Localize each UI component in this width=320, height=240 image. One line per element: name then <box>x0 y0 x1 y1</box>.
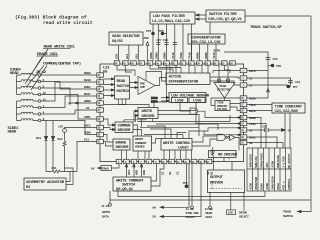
svg-text:TRACK: TRACK <box>283 209 291 213</box>
write current source bottom stubs <box>138 151 149 159</box>
wire C1 second with TP7 <box>247 85 291 87</box>
arrows into read switch matrix <box>103 79 114 96</box>
svg-text:COM1: COM1 <box>84 115 91 119</box>
wire C1 to C24 <box>247 78 291 87</box>
svg-text:DIF0: DIF0 <box>214 49 221 53</box>
svg-text:L4,L5,RA11,C18,C20: L4,L5,RA11,C18,C20 <box>152 20 191 24</box>
svg-text:DATA: DATA <box>102 215 109 219</box>
svg-text:SWR/HIGH: SWR/HIGH <box>270 176 274 189</box>
and gate U-C <box>190 108 198 114</box>
extra mesh wires <box>138 115 231 135</box>
svg-text:LVS0: LVS0 <box>175 100 184 104</box>
rotated labels under bottom pins <box>127 170 214 175</box>
wire RDC0 to time constant <box>247 110 272 112</box>
wire W0N0 <box>41 88 97 103</box>
svg-text:LOGIC: LOGIC <box>178 147 189 151</box>
svg-text:LV0: LV0 <box>228 211 233 215</box>
coil L row5 <box>21 99 38 101</box>
svg-text:JR:12: JR:12 <box>36 71 47 75</box>
label leader diagonals <box>25 49 48 90</box>
svg-text:C25: C25 <box>273 57 278 61</box>
svg-text:C21,C22,R40: C21,C22,R40 <box>275 110 299 114</box>
svg-text:C0: C0 <box>249 128 253 132</box>
svg-text:HIGH: HIGH <box>276 183 280 190</box>
lvs bottom to and gate <box>180 103 190 112</box>
svg-text:HIGH: HIGH <box>270 161 274 168</box>
svg-text:GC0: GC0 <box>115 54 119 59</box>
svg-text:LOW VOLTAGE SENSOR: LOW VOLTAGE SENSOR <box>171 95 210 99</box>
svg-text:WRITE: WRITE <box>102 210 110 214</box>
low voltage sensor box <box>169 93 206 103</box>
time constant box drop <box>285 113 290 148</box>
wire W1 <box>41 110 97 114</box>
svg-text:AMP: AMP <box>140 85 145 89</box>
svg-text:E0: E0 <box>153 215 157 219</box>
svg-text:EVCC: EVCC <box>84 124 91 128</box>
svg-text:REM0: REM0 <box>196 52 200 59</box>
write driver links <box>134 111 138 122</box>
LSI bottom pin row <box>116 159 122 163</box>
time domain filter right links <box>230 104 240 111</box>
node arrow on C25 line <box>267 89 270 92</box>
track switch line <box>245 16 311 212</box>
svg-text:OPEN/SWR: OPEN/SWR <box>254 177 258 190</box>
matrix bottom stubs <box>118 99 126 105</box>
read switch matrix box <box>115 76 130 99</box>
wire RW00 <box>41 74 97 76</box>
read data connector J1-30 <box>209 206 212 209</box>
svg-text:TP7: TP7 <box>293 85 298 89</box>
svg-text:RW10: RW10 <box>84 78 91 82</box>
capacitor C24 <box>288 81 293 83</box>
svg-text:C24: C24 <box>295 80 300 84</box>
coil L row7 <box>21 112 38 114</box>
side0 head coil bus <box>17 75 22 95</box>
svg-text:GA/55: GA/55 <box>112 39 123 44</box>
svg-text:SWR/LOW: SWR/LOW <box>254 156 258 168</box>
svg-text:DRIVER: DRIVER <box>142 115 156 119</box>
svg-text:(Fig.303) Block diagram of: (Fig.303) Block diagram of <box>15 15 87 21</box>
output driver box <box>208 170 245 193</box>
test point TP8 <box>268 65 272 67</box>
svg-text:ASM: ASM <box>144 36 149 40</box>
output driver dashed inner <box>210 182 242 191</box>
svg-text:W0: W0 <box>153 206 157 210</box>
transistor in rd driver <box>210 151 215 157</box>
svg-text:WRITE: WRITE <box>142 110 153 114</box>
svg-text:DIF0: DIF0 <box>249 69 256 73</box>
erase driver bottom stub <box>122 150 127 159</box>
svg-text:TM10: TM10 <box>179 52 183 59</box>
buffer gate U-B <box>228 137 230 139</box>
svg-text:D13: D13 <box>36 136 41 140</box>
svg-text:MATRIX: MATRIX <box>117 90 131 94</box>
E0 line <box>161 164 201 217</box>
svg-text:SOURCE: SOURCE <box>135 145 145 149</box>
svg-text:RW01: RW01 <box>84 85 91 89</box>
wire RW01 <box>41 82 97 90</box>
erase driver box <box>113 139 130 150</box>
diode D13a symbol <box>44 137 47 141</box>
svg-text:WRITE CONTROL: WRITE CONTROL <box>163 142 191 146</box>
svg-text:C27 C30: C27 C30 <box>157 38 169 42</box>
preamp feedback line to top pins <box>150 65 181 73</box>
diode D13b symbol <box>51 137 54 141</box>
svg-text:DGND: DGND <box>249 116 256 120</box>
svg-text:DIFFERENTIATOR: DIFFERENTIATOR <box>169 81 199 85</box>
svg-text:J-1 PCB: J-1 PCB <box>281 156 285 168</box>
svg-text:TP2: TP2 <box>183 181 188 185</box>
svg-text:DVS0: DVS0 <box>249 96 256 100</box>
svg-text:SWITCH: SWITCH <box>283 214 293 218</box>
svg-text:GS1: GS1 <box>134 54 138 59</box>
svg-text:C23: C23 <box>262 125 267 129</box>
svg-text:R4M0: R4M0 <box>204 52 208 59</box>
svg-text:ERA0: ERA0 <box>102 167 109 171</box>
svg-text:W1: W1 <box>86 106 90 110</box>
output driver top stubs <box>214 158 233 171</box>
switch filter box <box>206 10 245 22</box>
svg-text:DETECTOR: DETECTOR <box>217 87 230 91</box>
svg-text:READ WRITE COIL: READ WRITE COIL <box>44 46 76 50</box>
svg-text:DRIVER: DRIVER <box>210 182 224 186</box>
active differentiator to right pins <box>210 71 240 86</box>
coil L row4 <box>21 93 38 95</box>
wire COM0 <box>41 121 97 135</box>
lvs0 wire to gate area <box>196 103 240 124</box>
wire D1R1 down to table <box>247 137 277 148</box>
svg-text:W0N0: W0N0 <box>84 99 91 103</box>
svg-text:SWR/HIGH: SWR/HIGH <box>276 155 280 168</box>
write current source right link <box>152 139 162 144</box>
matrix to preamp arrows <box>130 83 138 88</box>
svg-text:12V: 12V <box>58 125 63 129</box>
wire TDC0 to time constant <box>247 104 272 106</box>
asymmetry adjustor box <box>24 178 66 190</box>
low pass filter drop wires <box>153 24 191 61</box>
12V rail with resistor R12 <box>63 132 66 171</box>
svg-text:C1: C1 <box>249 76 253 80</box>
active differentiator box <box>166 73 210 85</box>
svg-text:S0: S0 <box>249 141 253 145</box>
DIF0 wire to C25 node <box>224 52 268 98</box>
side1 head coil bus <box>17 101 22 121</box>
svg-text:DRIVER: DRIVER <box>118 129 132 133</box>
svg-text:TF10: TF10 <box>171 52 175 59</box>
svg-text:SWITCH FILTER: SWITCH FILTER <box>209 13 237 17</box>
wire DVS0 <box>247 97 268 99</box>
svg-text:C1: C1 <box>176 171 180 175</box>
svg-text:E21: E21 <box>84 138 89 142</box>
svg-text:R12: R12 <box>58 137 63 141</box>
capacitor C25 <box>266 58 271 60</box>
connector pin circles JR <box>38 74 41 77</box>
svg-text:ERASE COIL: ERASE COIL <box>37 53 59 57</box>
svg-text:ACTIVE: ACTIVE <box>169 76 183 80</box>
side one select connector J1-32 <box>191 206 194 209</box>
op-amp PRE AMP triangle <box>138 77 155 95</box>
erase driver input links <box>103 135 113 147</box>
mesh lines upper right of logic <box>204 131 240 135</box>
rd driver inner links <box>213 147 230 159</box>
asymmetry box links <box>65 168 74 185</box>
active differentiator top stubs <box>170 65 208 73</box>
svg-text:WD0: WD0 <box>142 170 146 175</box>
svg-text:LVS0: LVS0 <box>249 122 256 126</box>
coil L row1 <box>21 73 38 75</box>
svg-text:OUTPUT: OUTPUT <box>210 176 224 180</box>
low pass filter box <box>150 12 195 24</box>
svg-text:LVS0: LVS0 <box>193 100 202 104</box>
svg-text:WS1: WS1 <box>127 170 131 175</box>
time domain filter box <box>215 101 230 111</box>
svg-text:TP4: TP4 <box>146 29 151 33</box>
write control logic bottom stubs <box>164 150 192 159</box>
svg-text:ERM0: ERM0 <box>163 52 167 59</box>
common driver to write driver link <box>124 119 146 123</box>
ASM arrow stub <box>147 46 149 61</box>
wire DGND down to table <box>247 118 261 149</box>
svg-text:TP10: TP10 <box>187 52 191 59</box>
W0 line <box>161 164 189 208</box>
svg-text:SELECT: SELECT <box>186 215 196 219</box>
write control logic top mesh <box>147 126 240 139</box>
wire from top pin to peak det area <box>224 65 230 73</box>
and gate U-A <box>217 134 225 140</box>
arrows between filter boxes <box>196 15 206 19</box>
LSI U5 box <box>100 64 244 162</box>
0V arrow with ERA0 box <box>98 167 100 169</box>
rd driver box <box>209 151 237 158</box>
svg-text:TDC0: TDC0 <box>249 103 256 107</box>
svg-text:ASMA: ASMA <box>149 52 153 59</box>
differentiator box <box>188 34 225 44</box>
wire S0 down to table <box>247 143 283 149</box>
svg-text:TRACK SWITCH,SF: TRACK SWITCH,SF <box>250 26 282 30</box>
top feed lines into matrix area <box>117 65 135 76</box>
write current source box <box>133 136 152 151</box>
svg-text:COMMON(CENTER TAP): COMMON(CENTER TAP) <box>43 62 81 67</box>
svg-text:GC1: GC1 <box>125 54 129 59</box>
svg-text:CONTROL: CONTROL <box>287 178 291 190</box>
gain selector box <box>109 32 143 45</box>
svg-text:HEAD: HEAD <box>8 131 17 135</box>
svg-text:RD DRIVER: RD DRIVER <box>218 154 238 158</box>
label underlines <box>37 48 71 56</box>
wire C0 with capacitor C23 <box>247 129 282 131</box>
rd driver link down <box>223 158 225 162</box>
svg-text:S1: S1 <box>168 171 172 175</box>
svg-text:R1: R1 <box>210 171 214 175</box>
svg-text:J1-22: J1-22 <box>101 204 109 208</box>
LSI right pin column <box>240 68 247 72</box>
svg-text:ASYMMETRY ADJUSTOR: ASYMMETRY ADJUSTOR <box>26 181 65 185</box>
svg-text:EVC0: EVC0 <box>151 99 158 103</box>
capacitor C18 <box>173 43 177 45</box>
write current switch box <box>113 177 151 191</box>
arrowheads at right pins inner side <box>237 116 240 135</box>
peak detector triangle <box>214 83 235 99</box>
svg-text:PCB +-: PCB +- <box>281 180 285 190</box>
5V arrow <box>282 129 286 132</box>
rotated pin net labels top row <box>115 52 217 59</box>
capacitor C27 <box>156 43 160 45</box>
wire COM1 <box>41 95 97 120</box>
gate output to rd driver <box>235 137 239 150</box>
switch filter to differentiator wire <box>209 22 211 34</box>
svg-text:T210: T210 <box>212 52 216 59</box>
wire RW10 <box>41 82 97 101</box>
svg-text:5V: 5V <box>288 129 292 133</box>
diode line D13b <box>52 121 54 172</box>
wire EVCC / 12V <box>65 128 97 129</box>
svg-text:COM0: COM0 <box>84 131 91 135</box>
signal table grid <box>247 148 291 191</box>
LV0 box link <box>227 210 236 215</box>
svg-text:PUSH: PUSH <box>259 183 263 190</box>
svg-text:ERMA: ERMA <box>154 52 158 59</box>
test point TP2 <box>186 164 188 185</box>
svg-text:SWITCH: SWITCH <box>117 85 131 89</box>
svg-text:C1: C1 <box>249 83 253 87</box>
svg-text:HEAD: HEAD <box>10 72 19 76</box>
svg-text:RW11: RW11 <box>84 92 91 96</box>
svg-text:R33,C32,L3,C36: R33,C32,L3,C36 <box>191 41 221 45</box>
resistor R11 + rail <box>46 170 77 173</box>
write driver input arrowheads <box>135 110 138 117</box>
coil L row2 <box>21 80 38 82</box>
gain selector wires <box>118 45 138 61</box>
wire RW11 <box>41 96 97 108</box>
test point TP4 <box>152 32 155 35</box>
svg-text:read write circuit: read write circuit <box>43 20 93 26</box>
bottom bus wire lower <box>112 199 311 201</box>
time constant box <box>272 103 305 113</box>
0V arrow <box>75 102 79 104</box>
svg-text:OPEN/PUSH: OPEN/PUSH <box>259 153 263 168</box>
differentiator drop wires <box>192 44 217 61</box>
svg-text:E1: E1 <box>161 171 165 175</box>
write driver top stubs <box>104 65 167 107</box>
svg-text:11: 11 <box>43 97 47 101</box>
svg-text:FILTER: FILTER <box>217 107 227 111</box>
svg-text:R11: R11 <box>52 166 57 170</box>
svg-text:LOW PASS FILTER: LOW PASS FILTER <box>153 15 185 19</box>
svg-text:GAIN SELECTOR: GAIN SELECTOR <box>112 35 140 39</box>
svg-text:D1R1: D1R1 <box>249 135 256 139</box>
svg-text:RD OUTPUT: RD OUTPUT <box>287 154 291 169</box>
write driver box <box>138 108 158 119</box>
svg-text:ADJ: ADJ <box>265 162 269 167</box>
write current switch bottom links <box>151 164 164 186</box>
svg-text:READ: READ <box>117 80 126 84</box>
low voltage sensor input labels arrows <box>161 98 169 102</box>
svg-text:TP6: TP6 <box>159 29 164 33</box>
wire LVS0 down to table <box>247 124 266 149</box>
capacitor C30 <box>164 43 168 45</box>
bottom bus wire upper <box>118 191 265 197</box>
coil L row8 <box>21 119 38 121</box>
svg-text:Q9,Q0,Q1: Q9,Q0,Q1 <box>116 188 134 192</box>
coil L row6 <box>21 106 38 108</box>
svg-text:ERASE: ERASE <box>116 142 127 146</box>
common driver box <box>115 122 133 133</box>
svg-text:TP8: TP8 <box>276 64 281 68</box>
preamp output wires <box>155 78 166 86</box>
svg-text:SELECT: SELECT <box>239 214 249 218</box>
svg-text:WS0: WS0 <box>134 170 138 175</box>
svg-text:0V: 0V <box>68 101 72 105</box>
write control logic right links to gates <box>192 136 217 146</box>
svg-text:HIGH: HIGH <box>265 183 269 190</box>
peak detector to time domain filter <box>224 98 226 101</box>
svg-text:0V: 0V <box>91 167 95 171</box>
svg-text:DRIVER: DRIVER <box>116 146 130 150</box>
common driver right links <box>133 125 142 136</box>
wire DIF0 pin <box>247 70 268 72</box>
peak detector top stubs <box>219 65 228 82</box>
test point TP6 <box>161 32 164 35</box>
wire E21 <box>77 142 97 172</box>
svg-text:COMMON: COMMON <box>118 125 132 129</box>
write data connector J1-22 <box>109 203 112 206</box>
svg-text:HIGH: HIGH <box>248 183 252 190</box>
LSI left pin column <box>97 73 104 77</box>
svg-text:RW00: RW00 <box>84 71 91 75</box>
svg-text:RDC0: RDC0 <box>249 109 256 113</box>
svg-text:SWR/HIGH: SWR/HIGH <box>248 154 252 167</box>
coil L row3 <box>21 86 38 88</box>
diode line D13a <box>45 121 47 172</box>
and gate U-C output <box>198 111 241 117</box>
drive select link <box>243 192 245 211</box>
common driver input arrows <box>103 119 115 130</box>
svg-text:10: 10 <box>43 91 47 95</box>
svg-text:DATA: DATA <box>206 215 213 219</box>
LSI top pin row <box>114 61 120 65</box>
svg-text:C30,C31,Q7,Q8,V1: C30,C31,Q7,Q8,V1 <box>208 18 243 22</box>
write current switch top stubs <box>127 164 142 177</box>
write control logic box <box>161 139 192 151</box>
time domain filter left link <box>211 98 240 106</box>
